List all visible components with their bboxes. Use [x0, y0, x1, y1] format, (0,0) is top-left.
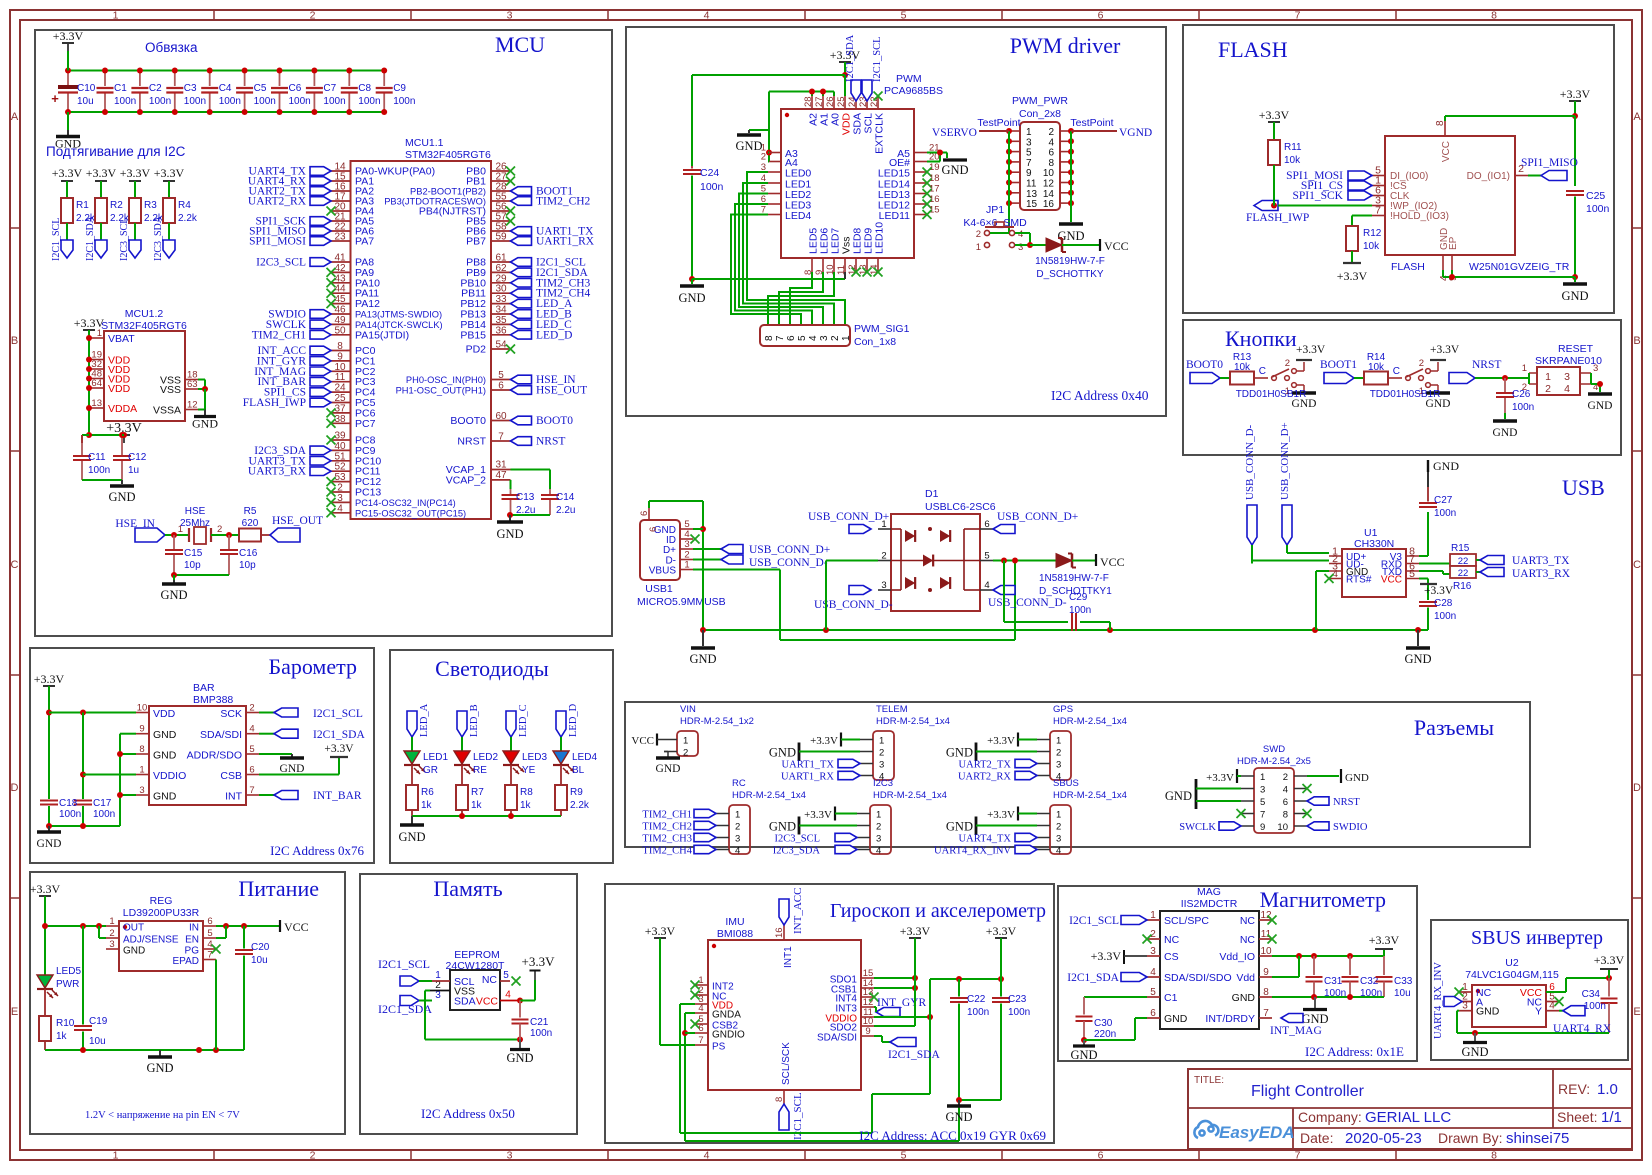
svg-text:LED_C: LED_C: [518, 704, 529, 737]
svg-text:8: 8: [1283, 810, 1288, 821]
svg-text:PWM: PWM: [896, 73, 922, 85]
svg-text:1k: 1k: [421, 800, 433, 811]
svg-text:INT_MAG: INT_MAG: [1270, 1025, 1322, 1037]
svg-text:33: 33: [495, 294, 507, 305]
svg-text:3: 3: [684, 539, 689, 550]
svg-text:6: 6: [207, 916, 212, 927]
svg-text:7: 7: [498, 432, 504, 443]
svg-text:INT/DRDY: INT/DRDY: [1205, 1013, 1255, 1025]
svg-text:8: 8: [774, 1097, 785, 1102]
svg-text:UART1_TX: UART1_TX: [782, 760, 835, 771]
svg-text:GND: GND: [123, 946, 145, 957]
svg-text:22: 22: [1458, 568, 1469, 579]
svg-text:4: 4: [735, 846, 740, 857]
svg-text:3: 3: [1056, 834, 1061, 845]
svg-text:PWR: PWR: [56, 979, 79, 990]
svg-text:38: 38: [334, 414, 346, 425]
svg-text:53: 53: [334, 472, 346, 483]
svg-text:47: 47: [495, 470, 507, 481]
svg-text:TDD01H0SB1R: TDD01H0SB1R: [1370, 389, 1441, 400]
svg-text:10p: 10p: [184, 560, 201, 571]
svg-text:Y: Y: [1535, 1006, 1542, 1018]
svg-text:I2C1_SDA: I2C1_SDA: [1067, 972, 1119, 984]
svg-text:GND: GND: [1493, 427, 1518, 439]
svg-text:I2C1_SDA: I2C1_SDA: [313, 729, 365, 741]
svg-text:4: 4: [1283, 785, 1288, 796]
svg-text:C: C: [1259, 366, 1266, 377]
svg-text:100n: 100n: [93, 809, 115, 820]
svg-text:D: D: [11, 782, 19, 794]
svg-text:2.2u: 2.2u: [556, 505, 575, 516]
svg-text:16: 16: [774, 927, 785, 938]
svg-text:+3.3V: +3.3V: [1430, 344, 1460, 356]
svg-text:9: 9: [139, 724, 144, 735]
svg-text:PA15(JTDI): PA15(JTDI): [355, 329, 409, 341]
svg-text:4: 4: [1150, 967, 1156, 978]
svg-text:Vdd: Vdd: [1236, 972, 1255, 984]
svg-text:5: 5: [1409, 568, 1415, 580]
svg-text:R12: R12: [1363, 228, 1382, 239]
svg-text:1k: 1k: [56, 1031, 68, 1042]
svg-text:60: 60: [495, 411, 507, 422]
svg-text:5: 5: [901, 10, 907, 22]
svg-text:C17: C17: [93, 798, 112, 809]
svg-text:1.0: 1.0: [1597, 1081, 1618, 1098]
svg-text:4: 4: [704, 10, 710, 22]
svg-text:EP: EP: [1448, 236, 1459, 250]
svg-text:4: 4: [1564, 383, 1570, 395]
svg-text:7: 7: [249, 785, 254, 796]
svg-text:2: 2: [1419, 358, 1424, 369]
svg-text:50: 50: [334, 325, 346, 336]
svg-text:1k: 1k: [520, 800, 532, 811]
svg-text:LED1: LED1: [423, 752, 448, 763]
svg-text:UART1_RX: UART1_RX: [781, 772, 834, 783]
svg-text:LED3: LED3: [522, 752, 547, 763]
svg-text:2: 2: [217, 524, 222, 535]
svg-text:5: 5: [901, 1150, 907, 1162]
svg-text:2: 2: [976, 229, 981, 240]
svg-text:63: 63: [187, 379, 198, 390]
svg-text:100n: 100n: [358, 96, 380, 107]
svg-text:B: B: [1633, 335, 1640, 347]
svg-text:NRST: NRST: [1472, 359, 1501, 371]
svg-text:6: 6: [648, 527, 659, 532]
svg-text:A: A: [1633, 111, 1641, 123]
svg-text:PC13: PC13: [355, 487, 381, 499]
svg-text:UART3_TX: UART3_TX: [1512, 555, 1570, 567]
svg-text:39: 39: [334, 431, 346, 442]
svg-text:R8: R8: [520, 787, 533, 798]
svg-text:10k: 10k: [1368, 362, 1385, 373]
svg-text:2: 2: [1522, 382, 1527, 393]
svg-text:PC14-OSC32_IN(PC14): PC14-OSC32_IN(PC14): [355, 498, 456, 508]
svg-text:1: 1: [879, 736, 884, 747]
svg-text:EPAD: EPAD: [173, 956, 200, 967]
svg-text:PA12: PA12: [355, 298, 380, 310]
svg-text:SBUS: SBUS: [1053, 778, 1079, 789]
svg-text:24: 24: [334, 383, 346, 394]
svg-text:2: 2: [337, 483, 343, 494]
svg-text:1: 1: [876, 810, 881, 821]
svg-text:27: 27: [814, 96, 825, 107]
svg-text:PG: PG: [185, 946, 200, 957]
svg-text:3: 3: [139, 785, 144, 796]
svg-text:+3.3V: +3.3V: [1296, 344, 1326, 356]
svg-text:6: 6: [786, 335, 797, 341]
svg-text:C13: C13: [516, 492, 535, 503]
svg-text:30: 30: [495, 284, 507, 295]
svg-text:10k: 10k: [1234, 362, 1251, 373]
svg-text:100n: 100n: [323, 96, 345, 107]
svg-text:Подтягивание для I2C: Подтягивание для I2C: [46, 144, 186, 159]
svg-text:C28: C28: [1434, 598, 1453, 609]
svg-text:1: 1: [735, 810, 740, 821]
svg-text:35: 35: [495, 315, 507, 326]
svg-text:HSE: HSE: [185, 506, 206, 517]
svg-text:PH1-OSC_OUT(PH1): PH1-OSC_OUT(PH1): [396, 386, 486, 396]
svg-text:C18: C18: [59, 798, 78, 809]
svg-text:VDD: VDD: [108, 383, 131, 395]
svg-text:BMI088: BMI088: [717, 928, 753, 940]
svg-text:MAG: MAG: [1197, 886, 1221, 898]
svg-text:GND: GND: [769, 820, 796, 834]
svg-text:GND: GND: [689, 652, 716, 666]
svg-text:6: 6: [1098, 1150, 1104, 1162]
svg-text:6: 6: [639, 511, 650, 516]
svg-text:4: 4: [337, 503, 343, 514]
svg-text:+3.3V: +3.3V: [987, 735, 1015, 747]
svg-text:HDR-M-2.54_1x2: HDR-M-2.54_1x2: [680, 716, 754, 727]
svg-text:7: 7: [1295, 1150, 1301, 1162]
svg-text:PWM_SIG1: PWM_SIG1: [854, 323, 910, 335]
svg-text:Con_1x8: Con_1x8: [854, 336, 896, 348]
svg-text:BAR: BAR: [193, 682, 215, 694]
svg-text:R1: R1: [76, 200, 89, 211]
svg-text:I2C Address 0x76: I2C Address 0x76: [270, 843, 364, 858]
svg-text:23: 23: [334, 232, 346, 243]
svg-text:NRST: NRST: [457, 436, 486, 448]
svg-text:2: 2: [735, 822, 740, 833]
svg-text:MICRO5.9MMUSB: MICRO5.9MMUSB: [637, 596, 726, 608]
svg-text:GND: GND: [656, 763, 681, 775]
svg-text:LED4: LED4: [785, 210, 811, 222]
svg-text:1: 1: [976, 242, 981, 253]
svg-text:1k: 1k: [471, 800, 483, 811]
svg-text:10: 10: [1260, 946, 1272, 957]
svg-text:I2C1_SCL: I2C1_SCL: [1069, 915, 1119, 927]
svg-text:D+: D+: [663, 545, 676, 556]
svg-text:GND: GND: [941, 163, 968, 177]
svg-text:62: 62: [495, 263, 507, 274]
svg-text:7: 7: [1375, 205, 1381, 217]
svg-text:4: 4: [505, 990, 511, 1001]
svg-text:I2C Address 0x40: I2C Address 0x40: [1051, 388, 1149, 403]
svg-text:MCU1.1: MCU1.1: [405, 137, 444, 149]
svg-text:TestPoint: TestPoint: [1070, 117, 1113, 129]
svg-text:B: B: [11, 335, 18, 347]
svg-text:UART4_RX_INV: UART4_RX_INV: [1433, 962, 1444, 1039]
svg-text:NRST: NRST: [1333, 797, 1360, 808]
svg-text:TIM2_CH3: TIM2_CH3: [642, 834, 692, 845]
svg-text:C: C: [1393, 366, 1400, 377]
svg-text:A: A: [11, 111, 19, 123]
svg-text:59: 59: [495, 232, 507, 243]
svg-text:MCU1.2: MCU1.2: [125, 308, 164, 320]
svg-text:PB2-BOOT1(PB2): PB2-BOOT1(PB2): [410, 187, 486, 197]
svg-text:R11: R11: [1284, 142, 1302, 153]
svg-text:PB7: PB7: [466, 236, 486, 248]
svg-text:GND: GND: [160, 588, 187, 602]
svg-text:PS: PS: [712, 1042, 726, 1053]
svg-text:GND: GND: [1345, 772, 1369, 784]
svg-text:VCC: VCC: [1381, 575, 1402, 586]
svg-text:C19: C19: [89, 1016, 108, 1027]
svg-text:GND: GND: [1070, 1048, 1097, 1062]
svg-text:BOOT0: BOOT0: [536, 415, 573, 427]
svg-text:100n: 100n: [184, 96, 206, 107]
svg-text:REV:: REV:: [1558, 1081, 1590, 1097]
svg-text:PWM driver: PWM driver: [1010, 33, 1121, 58]
svg-text:GND: GND: [1476, 1006, 1500, 1018]
svg-text:USB_CONN_D-: USB_CONN_D-: [1244, 424, 1256, 500]
svg-text:R16: R16: [1453, 581, 1472, 592]
svg-text:2: 2: [109, 928, 114, 939]
svg-text:GND: GND: [153, 750, 177, 762]
svg-text:52: 52: [334, 462, 346, 473]
svg-text:GERIAL LLC: GERIAL LLC: [1365, 1109, 1451, 1126]
svg-text:C23: C23: [1008, 994, 1027, 1005]
svg-text:BOOT0: BOOT0: [450, 415, 486, 427]
svg-text:USB1: USB1: [645, 583, 673, 595]
svg-text:9: 9: [1263, 967, 1269, 978]
svg-text:10: 10: [334, 362, 346, 373]
svg-text:USBLC6-2SC6: USBLC6-2SC6: [925, 501, 996, 513]
svg-text:100n: 100n: [1584, 1001, 1606, 1012]
svg-text:HDR-M-2.54_1x4: HDR-M-2.54_1x4: [1053, 790, 1127, 801]
svg-text:GND: GND: [153, 791, 177, 803]
svg-text:6: 6: [698, 1023, 703, 1034]
svg-text:+3.3V: +3.3V: [324, 743, 354, 755]
svg-text:4: 4: [698, 1003, 703, 1014]
svg-text:VCC: VCC: [1104, 239, 1129, 253]
svg-text:7: 7: [207, 950, 212, 961]
svg-text:GND: GND: [506, 1051, 533, 1065]
svg-text:3: 3: [1150, 946, 1156, 957]
svg-text:UART2_RX: UART2_RX: [248, 196, 307, 208]
svg-text:36: 36: [495, 325, 507, 336]
svg-text:VCC: VCC: [1441, 141, 1452, 162]
svg-text:R10: R10: [56, 1018, 75, 1029]
svg-text:I2C1_SCL: I2C1_SCL: [872, 36, 883, 82]
svg-text:6: 6: [1098, 10, 1104, 22]
svg-text:VGND: VGND: [1119, 127, 1152, 139]
svg-text:100n: 100n: [393, 96, 415, 107]
svg-text:1: 1: [1056, 736, 1061, 747]
svg-text:GND: GND: [146, 1061, 173, 1075]
svg-text:USB_CONN_D+: USB_CONN_D+: [997, 511, 1078, 523]
svg-text:100n: 100n: [700, 181, 724, 193]
svg-text:LED_A: LED_A: [419, 703, 430, 737]
svg-text:Разъемы: Разъемы: [1414, 715, 1494, 740]
svg-text:+3.3V: +3.3V: [1206, 772, 1234, 784]
svg-text:13: 13: [91, 398, 102, 409]
svg-text:1: 1: [1522, 363, 1527, 374]
svg-text:VSERVO: VSERVO: [932, 127, 977, 139]
svg-text:100n: 100n: [149, 96, 171, 107]
svg-text:TDD01H0SB1R: TDD01H0SB1R: [1236, 389, 1307, 400]
svg-text:LD39200PU33R: LD39200PU33R: [123, 907, 200, 919]
svg-text:C11: C11: [88, 452, 106, 463]
svg-text:+3.3V: +3.3V: [34, 672, 65, 686]
svg-text:C21: C21: [530, 1017, 549, 1028]
svg-text:+3.3V: +3.3V: [74, 316, 105, 330]
svg-text:2: 2: [1056, 822, 1061, 833]
svg-text:5: 5: [797, 335, 808, 341]
svg-text:UART3_RX: UART3_RX: [1512, 568, 1571, 580]
svg-text:SBUS инвертер: SBUS инвертер: [1471, 927, 1603, 949]
svg-text:11: 11: [1261, 929, 1272, 940]
svg-text:C14: C14: [556, 492, 575, 503]
svg-text:+3.3V: +3.3V: [1369, 933, 1400, 947]
svg-text:C: C: [1633, 559, 1641, 571]
svg-text:CSB: CSB: [220, 770, 242, 782]
svg-text:43: 43: [334, 273, 346, 284]
svg-text:HSE_OUT: HSE_OUT: [272, 515, 323, 527]
svg-text:R15: R15: [1451, 543, 1470, 554]
svg-text:2: 2: [830, 335, 841, 341]
svg-text:I2C3_SCL: I2C3_SCL: [774, 834, 820, 845]
svg-text:SDA/SDI: SDA/SDI: [817, 1033, 857, 1044]
svg-text:4: 4: [1056, 846, 1061, 857]
svg-text:+3.3V: +3.3V: [522, 954, 556, 969]
svg-text:2: 2: [1545, 383, 1551, 395]
svg-text:U2: U2: [1505, 957, 1519, 969]
svg-text:5: 5: [1260, 797, 1265, 808]
svg-text:UART3_RX: UART3_RX: [248, 466, 307, 478]
svg-text:I2C1_SDA: I2C1_SDA: [85, 215, 96, 261]
svg-text:Магнитометр: Магнитометр: [1260, 887, 1386, 912]
svg-text:+3.3V: +3.3V: [120, 166, 151, 180]
svg-text:3: 3: [876, 834, 881, 845]
svg-text:3: 3: [881, 580, 886, 591]
svg-text:VCC: VCC: [631, 735, 654, 747]
svg-text:Flight Controller: Flight Controller: [1251, 1083, 1365, 1100]
svg-text:SWD: SWD: [1263, 744, 1285, 755]
svg-text:NC: NC: [1240, 934, 1256, 946]
svg-text:GND: GND: [1164, 1013, 1188, 1025]
svg-text:GND: GND: [945, 1110, 972, 1124]
svg-text:1: 1: [113, 1150, 119, 1162]
svg-text:C12: C12: [128, 452, 147, 463]
svg-text:I2C3_SCL: I2C3_SCL: [256, 257, 306, 269]
svg-text:R2: R2: [110, 200, 123, 211]
svg-text:C4: C4: [219, 83, 232, 94]
svg-text:1: 1: [1545, 371, 1551, 383]
svg-text:GND: GND: [678, 291, 705, 305]
svg-text:I2C3_SDA: I2C3_SDA: [773, 846, 821, 857]
svg-text:USB_CONN_D-: USB_CONN_D-: [988, 597, 1067, 609]
svg-text:R6: R6: [421, 787, 434, 798]
svg-text:D1: D1: [925, 488, 939, 500]
svg-text:OUT: OUT: [123, 923, 144, 934]
svg-text:C27: C27: [1434, 495, 1453, 506]
svg-text:LED_D: LED_D: [536, 329, 572, 341]
svg-text:R3: R3: [144, 200, 157, 211]
svg-text:620: 620: [242, 518, 259, 529]
svg-text:2: 2: [1056, 748, 1061, 759]
svg-text:VIN: VIN: [680, 704, 696, 715]
svg-text:UART4_RX_INV: UART4_RX_INV: [934, 846, 1011, 857]
svg-text:R4: R4: [178, 200, 191, 211]
svg-text:10: 10: [1277, 822, 1288, 833]
svg-text:GND: GND: [1561, 289, 1588, 303]
svg-text:GND: GND: [496, 527, 523, 541]
svg-text:8: 8: [1491, 10, 1497, 22]
svg-text:+3.3V: +3.3V: [1424, 585, 1454, 597]
svg-text:EasyEDA: EasyEDA: [1219, 1123, 1295, 1142]
svg-text:2.2k: 2.2k: [178, 213, 198, 224]
svg-text:ADDR/SDO: ADDR/SDO: [187, 750, 242, 762]
svg-text:4: 4: [1018, 229, 1023, 240]
svg-text:C9: C9: [393, 83, 406, 94]
svg-text:INT_ACC: INT_ACC: [792, 888, 804, 934]
svg-text:Память: Память: [433, 876, 502, 901]
svg-text:C8: C8: [358, 83, 371, 94]
svg-text:USB_CONN_D-: USB_CONN_D-: [749, 557, 828, 569]
svg-text:1: 1: [1150, 910, 1156, 921]
svg-text:TELEM: TELEM: [876, 704, 908, 715]
svg-text:RESET: RESET: [1558, 343, 1594, 355]
svg-text:VSSA: VSSA: [153, 405, 181, 417]
svg-text:26: 26: [825, 96, 836, 107]
svg-text:Sheet:: Sheet:: [1557, 1109, 1597, 1125]
svg-text:44: 44: [334, 284, 346, 295]
svg-text:PWM_PWR: PWM_PWR: [1012, 95, 1068, 107]
svg-text:100n: 100n: [1434, 611, 1456, 622]
svg-text:HSE_OUT: HSE_OUT: [536, 385, 587, 397]
svg-text:Светодиоды: Светодиоды: [435, 656, 549, 681]
svg-text:VCC: VCC: [476, 996, 499, 1008]
svg-text:6: 6: [984, 519, 989, 530]
svg-text:3: 3: [1593, 363, 1598, 374]
svg-text:2: 2: [876, 822, 881, 833]
svg-text:2: 2: [1283, 772, 1288, 783]
svg-text:TIM2_CH2: TIM2_CH2: [642, 822, 692, 833]
svg-text:10k: 10k: [1284, 155, 1301, 166]
svg-text:IMU: IMU: [725, 916, 744, 928]
svg-text:49: 49: [334, 315, 346, 326]
svg-text:HDR-M-2.54_1x4: HDR-M-2.54_1x4: [876, 716, 950, 727]
svg-text:+3.3V: +3.3V: [53, 29, 84, 43]
svg-text:100n: 100n: [967, 1007, 989, 1018]
svg-text:GND: GND: [1404, 652, 1431, 666]
svg-text:+3.3V: +3.3V: [1259, 108, 1290, 122]
svg-text:VSS: VSS: [160, 384, 181, 396]
svg-text:C30: C30: [1094, 1018, 1113, 1029]
svg-text:TIM2_CH1: TIM2_CH1: [252, 329, 307, 341]
svg-text:3: 3: [507, 1150, 513, 1162]
svg-text:UART4_TX: UART4_TX: [959, 834, 1012, 845]
svg-text:2: 2: [761, 152, 766, 163]
svg-text:4: 4: [876, 846, 881, 857]
svg-text:2: 2: [310, 1150, 316, 1162]
svg-text:5: 5: [207, 928, 212, 939]
svg-text:VBUS: VBUS: [649, 566, 677, 577]
svg-text:JP1: JP1: [986, 204, 1004, 216]
svg-text:3: 3: [735, 834, 740, 845]
svg-text:2: 2: [249, 703, 254, 714]
